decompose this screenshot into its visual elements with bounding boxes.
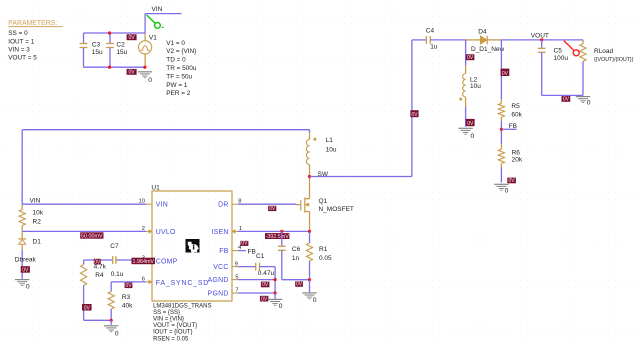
svg-text:0V: 0V [94,259,101,265]
svg-text:U1: U1 [151,185,160,192]
svg-text:R4: R4 [95,272,104,279]
svg-text:2: 2 [142,226,145,232]
svg-text:R2: R2 [33,218,42,225]
svg-text:0V: 0V [509,178,516,184]
svg-text:VIN: VIN [30,197,41,204]
svg-text:TD = 0: TD = 0 [166,57,186,64]
svg-text:0V: 0V [269,206,276,212]
svg-text:TR = 500u: TR = 500u [166,65,196,72]
svg-text:Q1: Q1 [319,198,328,205]
svg-text:0V: 0V [411,112,418,118]
svg-text:R3: R3 [122,294,131,301]
svg-text:10u: 10u [326,147,337,154]
svg-text:AGND: AGND [208,277,229,284]
svg-text:0: 0 [587,100,591,107]
svg-text:0: 0 [279,303,283,310]
svg-text:0V: 0V [129,35,136,41]
svg-text:C3: C3 [92,42,101,49]
svg-text:-392.5mV: -392.5mV [266,234,290,240]
svg-text:V1 = 0: V1 = 0 [166,40,185,47]
svg-text:SS = 0: SS = 0 [8,30,28,37]
svg-text:VIN = 3: VIN = 3 [8,46,30,53]
svg-text:10: 10 [139,199,145,205]
svg-text:0: 0 [115,330,119,337]
svg-text:FB: FB [248,248,256,255]
svg-text:60k: 60k [511,112,522,119]
svg-text:{{VOUT}/{IOUT}}: {{VOUT}/{IOUT}} [594,57,634,63]
svg-text:PARAMETERS:: PARAMETERS: [8,20,57,27]
svg-text:0: 0 [148,77,152,84]
svg-text:0V: 0V [467,121,474,127]
svg-text:6: 6 [142,277,145,283]
svg-text:1n: 1n [292,255,300,262]
svg-text:RLoad: RLoad [594,48,614,55]
svg-text:COMP: COMP [156,258,178,265]
svg-text:0V: 0V [296,282,303,288]
svg-text:N_MOSFET: N_MOSFET [319,206,354,213]
svg-text:100u: 100u [554,55,569,62]
svg-text:0.47u: 0.47u [258,270,275,277]
svg-text:DR: DR [218,202,228,209]
svg-text:0V: 0V [467,55,474,61]
svg-text:IOUT = 1: IOUT = 1 [8,38,34,45]
svg-text:0V: 0V [125,283,132,289]
svg-text:10u: 10u [470,83,481,90]
svg-text:VOUT: VOUT [531,32,549,39]
svg-text:C1: C1 [256,253,265,260]
svg-text:0V: 0V [84,305,91,311]
svg-text:10k: 10k [33,209,44,216]
svg-text:PGND: PGND [208,291,229,298]
svg-text:LM3481DGS_TRANS: LM3481DGS_TRANS [153,303,211,309]
svg-text:VCC: VCC [213,264,228,271]
svg-text:1u: 1u [430,44,438,51]
svg-text:IOUT = {IOUT}: IOUT = {IOUT} [153,330,192,336]
svg-text:0V: 0V [502,71,509,77]
svg-text:R1: R1 [319,246,328,253]
svg-text:PW = 1: PW = 1 [166,82,188,89]
svg-text:40k: 40k [122,302,133,309]
svg-text:R5: R5 [511,103,520,110]
svg-text:0: 0 [26,284,30,291]
svg-text:VIN: VIN [156,202,168,209]
svg-text:FB: FB [219,248,228,255]
svg-text:0V: 0V [563,97,570,103]
svg-text:0: 0 [313,297,317,304]
svg-text:20k: 20k [512,156,523,163]
svg-text:PER = 2: PER = 2 [166,90,190,97]
svg-text:15u: 15u [92,49,103,56]
svg-text:VOUT = {VOUT}: VOUT = {VOUT} [153,323,197,329]
svg-text:0V: 0V [241,241,248,247]
svg-text:0V: 0V [129,70,136,76]
svg-text:UVLO: UVLO [156,229,176,236]
svg-text:ISEN: ISEN [212,229,229,236]
svg-text:D4: D4 [478,28,487,35]
svg-text:0V: 0V [22,268,29,274]
svg-text:C2: C2 [116,42,125,49]
svg-text:L1: L1 [326,137,334,144]
svg-text:TF = 50u: TF = 50u [166,73,192,80]
svg-text:1.964mV: 1.964mV [132,259,154,265]
svg-text:C4: C4 [426,28,435,35]
svg-text:C7: C7 [110,243,119,250]
svg-text:RSEN = 0.05: RSEN = 0.05 [153,336,189,342]
svg-text:V1: V1 [149,34,157,41]
svg-text:0: 0 [471,133,475,140]
svg-text:0.05: 0.05 [319,255,332,262]
svg-text:15u: 15u [116,49,127,56]
svg-text:Dbreak: Dbreak [15,257,37,264]
svg-text:V2 = {VIN}: V2 = {VIN} [166,48,197,55]
svg-text:VOUT = 5: VOUT = 5 [8,55,37,62]
svg-text:VIN = {VIN}: VIN = {VIN} [153,317,184,323]
svg-text:0.1u: 0.1u [111,271,124,278]
svg-text:VIN: VIN [152,6,163,13]
svg-text:0V: 0V [261,296,268,302]
svg-text:50.00mV: 50.00mV [81,234,103,240]
svg-text:FB: FB [509,123,517,130]
svg-text:FA_SYNC_SD: FA_SYNC_SD [156,280,209,287]
svg-text:C6: C6 [292,246,301,253]
svg-text:D_D1_New: D_D1_New [471,46,505,53]
svg-text:9: 9 [235,261,238,267]
svg-text:C5: C5 [554,47,563,54]
svg-text:SS = {SS}: SS = {SS} [153,310,180,316]
svg-text:D1: D1 [33,239,42,246]
svg-text:0V: 0V [262,282,269,288]
svg-text:0: 0 [505,188,509,195]
